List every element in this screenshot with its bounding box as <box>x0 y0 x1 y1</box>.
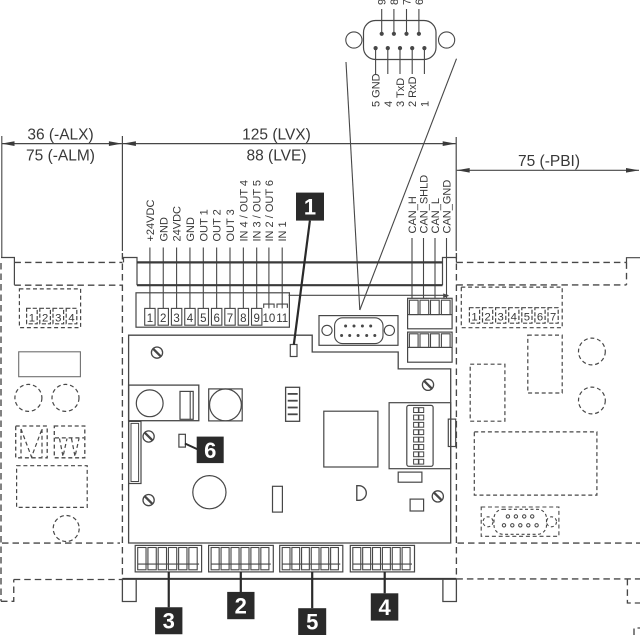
PBI terminal 2 <box>483 308 493 324</box>
svg-text:125 (LVX): 125 (LVX) <box>242 127 311 144</box>
svg-text:2: 2 <box>42 312 48 324</box>
label 5 leader <box>311 572 313 608</box>
center module LVE top-left tab <box>124 258 138 286</box>
terminal 3 <box>171 308 181 325</box>
svg-text:10: 10 <box>263 313 276 325</box>
right module top edge <box>456 261 626 263</box>
wire <box>406 9 408 34</box>
svg-text:6: 6 <box>204 438 216 463</box>
component C3 <box>410 499 424 511</box>
PBI capacitor bottom <box>579 387 606 414</box>
label 4 <box>371 593 399 620</box>
cell <box>441 300 450 314</box>
svg-text:IN 2 / OUT 6: IN 2 / OUT 6 <box>264 180 276 242</box>
cell <box>431 334 440 348</box>
DB9 pin <box>340 334 343 337</box>
wire <box>242 248 244 309</box>
terminal 4 <box>185 308 195 325</box>
label 5 <box>298 608 326 635</box>
svg-text:6: 6 <box>213 313 219 325</box>
component R2 <box>398 472 422 482</box>
DB9 detail pin 9 <box>380 32 384 36</box>
ALM terminal box <box>19 289 80 328</box>
svg-text:7: 7 <box>227 313 233 325</box>
DIP switch region <box>389 403 451 469</box>
dimension extension line x=456.2 <box>455 137 457 251</box>
svg-text:CAN_GND: CAN_GND <box>442 180 454 234</box>
left module bottom edge <box>14 579 123 581</box>
label 3 leader <box>168 572 170 607</box>
shared module edge x=456.4 <box>455 253 457 580</box>
wire <box>381 9 383 34</box>
wire <box>229 248 231 309</box>
terminal 9 <box>252 308 262 325</box>
right module rail line <box>456 284 626 286</box>
PBI terminal 1 <box>469 308 479 324</box>
wire <box>434 238 436 298</box>
svg-text:3: 3 <box>163 609 175 634</box>
ALM terminal 2 <box>40 308 51 324</box>
ALM capacitor bottom <box>53 516 79 542</box>
svg-text:4: 4 <box>511 312 517 324</box>
DB9 detail pin 3 <box>398 46 402 50</box>
DB9 detail right mounting hole <box>439 32 455 48</box>
leader line from DB9 detail (left) to PCB connector <box>346 62 360 310</box>
terminal strip X1 housing <box>136 293 289 327</box>
svg-text:OUT 1: OUT 1 <box>198 209 210 241</box>
PBI terminal 6 <box>535 308 545 324</box>
PBI terminal 3 <box>496 308 506 324</box>
wire <box>393 9 395 34</box>
svg-text:1: 1 <box>419 101 431 107</box>
DB9 detail pin 8 <box>392 32 396 36</box>
center module left foot <box>122 579 136 602</box>
DB9 pin <box>344 325 347 328</box>
capacitor C2 <box>193 476 226 509</box>
label 3 <box>155 607 182 634</box>
shared module edge x=122.4 <box>121 253 123 580</box>
wire <box>399 48 401 74</box>
svg-text:6: 6 <box>414 0 426 5</box>
svg-text:IN 3 / OUT 5: IN 3 / OUT 5 <box>252 180 264 242</box>
center module rail line (thick) <box>137 284 443 286</box>
screw <box>432 491 443 502</box>
PBI terminal box <box>461 287 562 328</box>
center module right foot <box>443 579 457 602</box>
wire <box>162 248 164 309</box>
label 6 leader <box>185 444 198 450</box>
terminal 8 <box>238 308 248 325</box>
ALM capacitor left <box>15 384 42 411</box>
left module rail line <box>14 284 122 286</box>
PBI component B <box>470 364 505 421</box>
svg-text:CAN_H: CAN_H <box>407 196 419 233</box>
svg-text:5: 5 <box>200 313 206 325</box>
LED indicator (label 6 target) <box>179 434 186 447</box>
left module left edge <box>0 263 2 601</box>
terminal 6 <box>211 308 221 325</box>
dimension line 125/88 center <box>123 143 456 145</box>
dimension line 36/75 left <box>2 143 122 145</box>
svg-text:4: 4 <box>378 595 391 620</box>
center module bottom edge <box>122 578 456 580</box>
wire <box>375 48 377 74</box>
PBI DB9 body <box>494 509 547 534</box>
center module top-right tab <box>443 258 457 286</box>
screw <box>422 379 433 390</box>
ALM transformer box <box>17 466 88 508</box>
PBI big component <box>474 432 597 495</box>
screw <box>143 431 154 442</box>
label 1 leader <box>294 221 310 345</box>
svg-text:1: 1 <box>471 312 477 324</box>
svg-text:11: 11 <box>276 313 288 325</box>
edge connector (left) <box>129 421 141 483</box>
DB9 pin <box>373 334 376 337</box>
svg-text:3: 3 <box>173 313 179 325</box>
svg-text:3: 3 <box>498 312 504 324</box>
terminal 7 <box>225 308 235 325</box>
svg-text:4: 4 <box>383 101 395 107</box>
svg-text:7: 7 <box>402 0 414 5</box>
svg-text:IN 4 / OUT 4: IN 4 / OUT 4 <box>238 180 250 242</box>
edge connector (right) <box>448 419 455 446</box>
DB9 detail pin 6 <box>417 32 421 36</box>
leader line from DB9 detail (right) to PCB connector <box>360 59 457 310</box>
wire <box>423 238 425 298</box>
label 2 leader <box>240 572 242 592</box>
svg-text:GND: GND <box>185 217 197 242</box>
DB9 detail pin 1 <box>422 46 426 50</box>
bottom terminal block X13 <box>280 545 343 572</box>
buzzer <box>209 389 243 421</box>
PBI terminal 7 <box>548 308 558 324</box>
svg-text:5 GND: 5 GND <box>371 73 383 107</box>
terminal 2 <box>158 308 168 325</box>
wire <box>387 48 389 74</box>
ALM capacitor right <box>52 384 79 411</box>
ALM relay A <box>16 426 48 458</box>
wire <box>411 48 413 74</box>
bottom terminal block X14 <box>350 545 414 572</box>
PBI DB9 right hole <box>547 517 557 527</box>
cell <box>409 300 418 314</box>
dimension extension line x=1 <box>1 136 3 258</box>
svg-text:OUT 3: OUT 3 <box>225 209 237 241</box>
bottom terminal block X12 <box>209 545 274 572</box>
right module pcb bottom line <box>458 542 640 544</box>
PBI terminal 4 <box>509 308 519 324</box>
left module pcb bottom line <box>2 542 120 544</box>
header J1 <box>286 387 300 421</box>
relay bay outline <box>129 385 199 421</box>
DB9 body <box>335 318 383 344</box>
label 6 <box>197 437 224 464</box>
wire <box>176 248 178 309</box>
PBI capacitor top <box>579 338 606 365</box>
dimension line 75 (-PBI) right <box>457 169 639 171</box>
svg-text:88 (LVE): 88 (LVE) <box>246 148 306 165</box>
svg-text:36 (-ALX): 36 (-ALX) <box>27 127 93 144</box>
ALM display window <box>19 352 81 377</box>
relay K1 <box>180 391 193 419</box>
PBI component A <box>528 335 562 393</box>
DB9 right screw hole <box>384 325 394 335</box>
terminal 5 <box>198 308 208 325</box>
wire <box>268 248 270 309</box>
ALM relay B <box>54 426 85 458</box>
svg-text:1: 1 <box>147 313 153 325</box>
screw <box>151 347 162 358</box>
wire <box>216 248 218 309</box>
crystal D shape <box>357 486 367 501</box>
support bar <box>289 294 448 296</box>
cell <box>441 334 450 348</box>
label 2 <box>227 592 254 619</box>
wire <box>446 238 448 298</box>
svg-text:6: 6 <box>537 312 543 324</box>
svg-text:3 TxD: 3 TxD <box>395 78 407 107</box>
center module top edge (thick) <box>137 261 443 263</box>
right module -PBI top tab <box>627 258 640 263</box>
DB9 detail pin 7 <box>404 32 408 36</box>
ALM terminal 1 <box>27 308 38 324</box>
svg-text:IN 1: IN 1 <box>277 221 289 241</box>
svg-text:2: 2 <box>235 593 247 618</box>
ALM terminal 4 <box>66 308 77 324</box>
wire <box>149 248 151 309</box>
DIP switch S1 <box>407 405 433 466</box>
cell <box>420 334 429 348</box>
svg-text:4: 4 <box>68 312 74 324</box>
terminal 11 <box>277 304 287 308</box>
wire <box>202 248 204 309</box>
svg-text:75 (-PBI): 75 (-PBI) <box>518 153 580 170</box>
right module corner edge <box>626 262 628 285</box>
cell <box>431 300 440 314</box>
wire <box>281 248 283 309</box>
svg-text:1: 1 <box>304 195 316 220</box>
svg-text:CAN_L: CAN_L <box>430 198 442 233</box>
CAN terminal block X2 <box>408 298 453 329</box>
DB9 pin <box>357 334 360 337</box>
PCB outline <box>129 335 451 543</box>
right module foot <box>627 579 640 603</box>
cell <box>420 300 429 314</box>
DB9 pin <box>369 325 372 328</box>
terminal 10 <box>264 304 274 308</box>
PBI DB9 left hole <box>483 517 493 527</box>
wire <box>411 238 413 298</box>
left module foot <box>1 580 14 602</box>
DB9 pin <box>348 334 351 337</box>
svg-text:24VDC: 24VDC <box>172 206 184 242</box>
svg-text:9: 9 <box>253 313 259 325</box>
svg-text:3: 3 <box>55 312 61 324</box>
component R1 <box>273 486 283 512</box>
svg-text:75 (-ALM): 75 (-ALM) <box>26 148 95 165</box>
svg-text:OUT 2: OUT 2 <box>212 209 224 241</box>
DB9 pin <box>365 334 368 337</box>
svg-text:2 RxD: 2 RxD <box>407 76 419 107</box>
DB9 detail left mounting hole <box>346 32 362 48</box>
bottom-right corner mark <box>634 628 640 635</box>
wire <box>256 248 258 309</box>
svg-text:5: 5 <box>524 312 530 324</box>
LED indicator (label 1 target) <box>290 345 297 357</box>
IC U1 <box>324 411 378 467</box>
connector X4 DB9 detail body <box>364 21 437 60</box>
PBI DB9 housing <box>481 507 559 536</box>
svg-text:5: 5 <box>306 610 318 635</box>
DB9 detail pin 4 <box>386 46 390 50</box>
svg-text:4: 4 <box>187 313 194 325</box>
svg-text:CAN_SHLD: CAN_SHLD <box>419 175 431 234</box>
DB9 left screw hole <box>322 325 332 335</box>
svg-text:+24VDC: +24VDC <box>145 200 157 242</box>
svg-text:2: 2 <box>160 313 166 325</box>
terminal 1 <box>145 308 155 325</box>
DB9 pin <box>361 325 364 328</box>
ALM terminal 3 <box>53 308 64 324</box>
svg-text:1: 1 <box>29 312 35 324</box>
PBI terminal 5 <box>522 308 532 324</box>
capacitor C1 <box>136 390 163 417</box>
label 1 <box>296 193 324 221</box>
wire <box>189 248 191 309</box>
svg-text:8: 8 <box>240 313 246 325</box>
DB9 detail pin 5 <box>374 46 378 50</box>
PCB connector X4 DB9 housing <box>319 316 398 346</box>
wire <box>423 48 425 74</box>
dimension extension line x=122.4 <box>121 136 123 251</box>
left module top edge <box>14 261 122 263</box>
label 4 leader <box>384 572 386 593</box>
cell <box>409 334 418 348</box>
svg-text:GND: GND <box>158 217 170 242</box>
right module bottom edge <box>456 578 640 580</box>
svg-text:2: 2 <box>484 312 490 324</box>
svg-text:7: 7 <box>550 312 556 324</box>
DB9 detail pin 2 <box>410 46 414 50</box>
bottom terminal block X11 <box>135 545 201 572</box>
CAN terminal block X3 <box>408 332 453 362</box>
svg-text:8: 8 <box>389 0 401 5</box>
left module -ALM top tab <box>1 258 14 285</box>
screw <box>143 495 154 506</box>
svg-text:9: 9 <box>377 0 389 5</box>
DB9 pin <box>353 325 356 328</box>
wire <box>418 9 420 34</box>
